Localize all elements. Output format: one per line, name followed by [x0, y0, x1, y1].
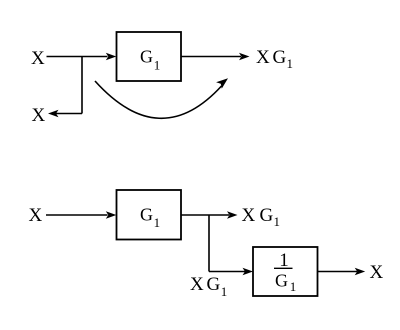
wire arrowhead into 1/G1 block — [243, 268, 254, 276]
wire takeoff down to 1/G1 block — [209, 271, 245, 273]
svg-text:G: G — [140, 47, 153, 67]
wire arrowhead to X G1 label — [239, 53, 250, 61]
wire input X to block G1 (bottom) — [46, 214, 108, 216]
wire takeoff down-left to X — [56, 113, 82, 115]
wire arrowhead of curved arrow — [216, 78, 228, 88]
svg-text:X: X — [32, 105, 46, 126]
svg-text:1: 1 — [290, 279, 297, 294]
svg-text:X: X — [256, 47, 270, 68]
wire arrowhead to lower-left X — [48, 110, 59, 118]
wire curved arrow (takeoff point moved after block) — [95, 81, 222, 118]
block 1/G1 (bottom diagram) — [253, 247, 318, 296]
svg-text:G: G — [140, 205, 153, 225]
wire G1 output to X G1 (bottom) — [181, 214, 229, 216]
svg-text:G: G — [275, 271, 288, 291]
svg-text:X: X — [190, 274, 204, 295]
wire G1 output to X G1 — [181, 56, 241, 58]
wire arrowhead to final X — [355, 268, 366, 276]
svg-text:1: 1 — [287, 56, 294, 71]
svg-text:G: G — [260, 205, 274, 226]
svg-text:G: G — [273, 47, 287, 68]
wire arrowhead into G1 — [106, 53, 117, 61]
svg-text:1: 1 — [154, 57, 161, 72]
svg-text:X: X — [370, 262, 384, 283]
svg-text:1: 1 — [274, 214, 281, 229]
wire 1/G1 output to X — [318, 271, 358, 273]
wire arrowhead into bottom G1 — [106, 211, 117, 219]
svg-text:X: X — [29, 205, 43, 226]
svg-text:1: 1 — [221, 284, 228, 299]
wire arrowhead to bottom X G1 label — [227, 211, 238, 219]
node takeoff point (top diagram, before block) — [81, 57, 83, 114]
node takeoff point (bottom diagram, after block) — [208, 215, 210, 272]
svg-text:X: X — [31, 48, 45, 69]
svg-text:X: X — [242, 205, 256, 226]
fraction bar of 1/G1 — [274, 267, 293, 269]
block G1 (bottom diagram) — [117, 190, 182, 240]
block G1 (top diagram) — [117, 32, 182, 81]
wire input X to block G1 — [47, 56, 108, 58]
svg-text:G: G — [207, 274, 221, 295]
svg-text:1: 1 — [154, 215, 161, 230]
